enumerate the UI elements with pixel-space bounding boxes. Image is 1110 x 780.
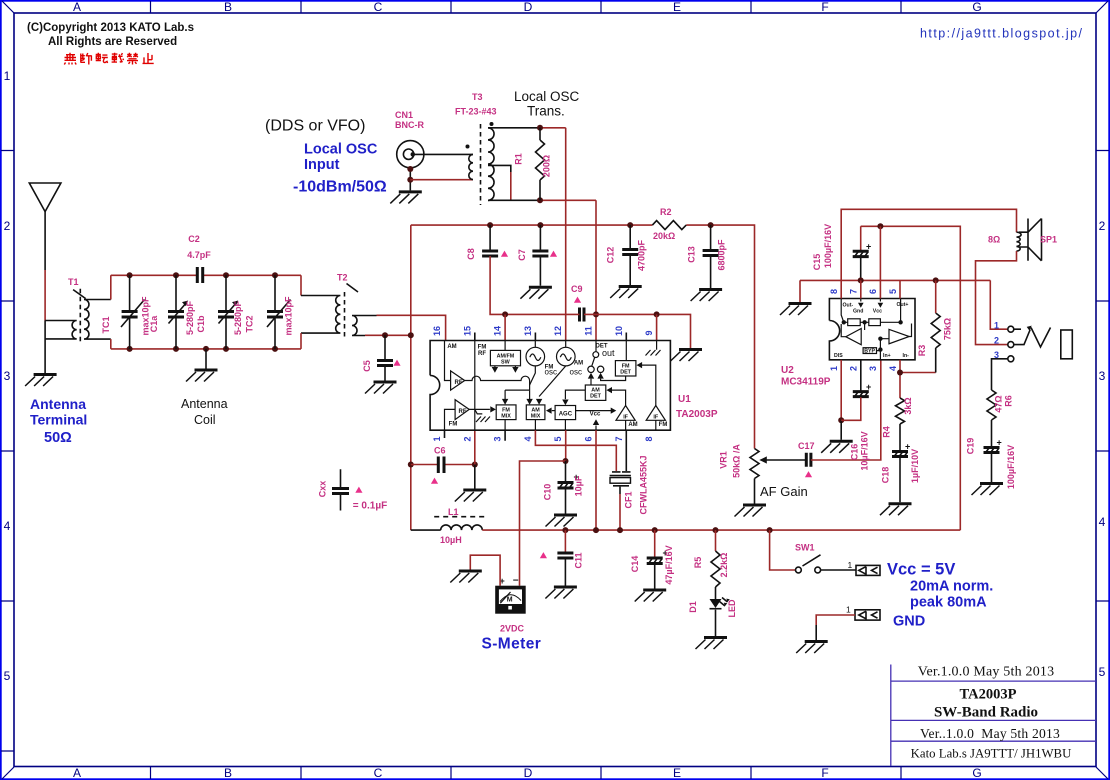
top rail wire — [411, 225, 755, 431]
svg-text:10µF: 10µF — [573, 475, 583, 496]
svg-text:B: B — [224, 766, 232, 780]
svg-text:L1: L1 — [448, 507, 459, 517]
wire pin5 node — [565, 430, 567, 461]
svg-text:5: 5 — [888, 289, 898, 294]
svg-text:Local OSC: Local OSC — [514, 89, 580, 104]
svg-text:Antenna: Antenna — [30, 396, 86, 412]
capacitor C10 — [565, 461, 567, 482]
svg-text:4: 4 — [1099, 515, 1106, 529]
svg-text:Out-: Out- — [843, 303, 854, 309]
pin numbers bottom 1-8 — [432, 436, 654, 441]
svg-text:osc: osc — [545, 368, 557, 377]
svg-text:DET: DET — [590, 394, 601, 400]
svg-text:50kΩ /A: 50kΩ /A — [732, 444, 742, 478]
svg-text:C7: C7 — [517, 249, 527, 261]
tuned circuit bottom rail — [111, 348, 301, 350]
svg-text:1: 1 — [829, 366, 839, 371]
svg-text:6800pF: 6800pF — [717, 239, 727, 271]
svg-text:TA2003P: TA2003P — [960, 687, 1017, 703]
ground C12 — [610, 287, 642, 299]
svg-text:Local OSC: Local OSC — [304, 142, 378, 158]
Vcc bus wire — [482, 529, 960, 531]
svg-text:7: 7 — [849, 289, 859, 294]
svg-text:Gnd: Gnd — [853, 309, 863, 315]
svg-text:D: D — [524, 766, 533, 780]
svg-text:7: 7 — [614, 436, 624, 441]
ground C5 — [365, 382, 397, 394]
svg-text:F: F — [821, 0, 828, 14]
wire pin1 down — [840, 360, 842, 421]
wire BNC to T3 primary top — [415, 153, 474, 155]
ground D1 — [696, 638, 728, 650]
svg-text:12: 12 — [553, 326, 563, 336]
svg-text:TC1: TC1 — [101, 316, 111, 333]
T3 center tap — [488, 165, 511, 172]
svg-text:15: 15 — [462, 326, 472, 336]
svg-text:SW: SW — [501, 360, 511, 366]
legend cap Cxx — [340, 469, 342, 510]
trimmer TC2 — [274, 275, 276, 349]
inductor L1 — [411, 529, 441, 531]
svg-text:CF1: CF1 — [624, 491, 634, 508]
svg-text:2: 2 — [994, 336, 999, 346]
svg-text:Terminal: Terminal — [30, 412, 87, 428]
svg-text:Vcc = 5V: Vcc = 5V — [887, 561, 955, 579]
svg-text:20kΩ: 20kΩ — [653, 231, 675, 241]
ground C14 — [635, 590, 667, 602]
svg-text:G: G — [972, 0, 981, 14]
svg-text:2: 2 — [462, 436, 472, 441]
svg-text:RF: RF — [459, 409, 467, 415]
svg-text:U1: U1 — [678, 394, 691, 405]
svg-text:B: B — [224, 0, 232, 14]
svg-text:47µF/16V: 47µF/16V — [664, 545, 674, 584]
svg-text:G: G — [972, 766, 981, 780]
svg-text:peak 80mA: peak 80mA — [910, 595, 987, 611]
svg-text:Ver.1.0.0 May 5th 2013: Ver.1.0.0 May 5th 2013 — [918, 665, 1055, 680]
svg-text:FM: FM — [478, 345, 487, 351]
svg-text:= 0.1µF: = 0.1µF — [353, 501, 387, 512]
wire Vcc U2 — [861, 226, 961, 530]
resistor R5 — [715, 530, 717, 551]
wire pin6 to bus — [595, 430, 597, 530]
wire T1 to rails — [110, 275, 112, 349]
svg-text:In-: In- — [903, 353, 910, 359]
resistor R4 — [896, 398, 905, 451]
svg-text:CN1: CN1 — [395, 110, 413, 120]
svg-text:3kΩ: 3kΩ — [903, 397, 913, 414]
svg-text:C: C — [374, 766, 383, 780]
red kanji notice (drawn strokes) — [64, 53, 153, 65]
wire pin5 up — [899, 280, 901, 298]
resistor R3 — [931, 313, 940, 373]
svg-text:VR1: VR1 — [719, 451, 729, 469]
svg-text:4700pF: 4700pF — [637, 239, 647, 271]
svg-text:AM: AM — [574, 361, 583, 367]
capacitor C19 — [984, 448, 1000, 453]
svg-text:C14: C14 — [630, 556, 640, 573]
svg-text:100µF/16V: 100µF/16V — [1006, 445, 1016, 489]
svg-text:C18: C18 — [881, 467, 891, 484]
wire LO to pin12 — [565, 128, 567, 341]
ground C13 — [691, 290, 723, 302]
svg-text:2VDC: 2VDC — [500, 624, 525, 634]
svg-text:In+: In+ — [883, 353, 891, 359]
svg-text:MIX: MIX — [531, 414, 541, 420]
svg-text:2: 2 — [849, 366, 859, 371]
svg-text:C5: C5 — [362, 360, 372, 372]
svg-text:R1: R1 — [514, 153, 524, 165]
wire speaker bottom to jack 2 — [976, 251, 1017, 345]
svg-text:1µF/10V: 1µF/10V — [910, 449, 920, 483]
wire T3 secondary top to R1 — [488, 127, 540, 129]
capacitor C11 — [564, 530, 566, 553]
svg-text:C15: C15 — [812, 254, 822, 271]
svg-text:47Ω: 47Ω — [994, 395, 1004, 412]
svg-text:Vcc: Vcc — [873, 309, 882, 315]
wire pin7 up — [860, 280, 862, 298]
capacitor C16 — [860, 360, 862, 391]
svg-text:AM: AM — [447, 344, 456, 350]
svg-text:C10: C10 — [543, 484, 553, 501]
svg-text:+: + — [866, 242, 871, 252]
svg-text:5-280pF: 5-280pF — [233, 300, 243, 335]
svg-text:4.7pF: 4.7pF — [187, 250, 211, 260]
capacitor C14 — [654, 530, 656, 557]
wire T3 bottom to pin11 — [595, 200, 597, 340]
svg-text:1: 1 — [848, 560, 853, 570]
wire to jack 1 — [990, 280, 1007, 329]
svg-text:A: A — [73, 766, 81, 780]
svg-text:max10pF: max10pF — [283, 296, 293, 336]
svg-text:6: 6 — [868, 289, 878, 294]
svg-text:BNC-R: BNC-R — [395, 120, 424, 130]
svg-text:GND: GND — [893, 614, 925, 630]
ground mid coil — [205, 349, 207, 369]
svg-text:FM: FM — [449, 422, 458, 428]
capacitor C15 — [860, 226, 862, 250]
svg-text:R6: R6 — [1003, 395, 1013, 407]
IC U2 MC34119P box — [829, 299, 915, 360]
svg-text:3: 3 — [868, 366, 878, 371]
svg-text:3: 3 — [1099, 369, 1106, 383]
svg-text:2.2kΩ: 2.2kΩ — [719, 553, 729, 578]
wire jack 3 to R6 — [992, 359, 1008, 390]
row numbers right — [1099, 219, 1106, 679]
svg-text:C: C — [374, 0, 383, 14]
svg-text:T2: T2 — [337, 273, 348, 283]
wire C6 line — [411, 464, 475, 466]
svg-text:CFWLA455KJ: CFWLA455KJ — [639, 455, 649, 514]
wire pin6 up — [879, 226, 881, 298]
wire T2 sec bottom — [365, 334, 411, 336]
wire C17 to U2 pin3 — [811, 360, 881, 460]
svg-text:Ver..1.0.0 May 5th 2013: Ver..1.0.0 May 5th 2013 — [920, 726, 1060, 741]
wire pin4 node — [900, 360, 936, 398]
wire pin4 to CF1 — [535, 430, 616, 471]
svg-text:-10dBm/50Ω: -10dBm/50Ω — [293, 179, 387, 196]
svg-text:13: 13 — [523, 326, 533, 336]
svg-text:A: A — [73, 0, 81, 14]
capacitor C13 — [710, 225, 712, 250]
resistor R1 — [536, 128, 545, 201]
ground BNC — [390, 192, 422, 204]
svg-text:D: D — [524, 0, 533, 14]
svg-text:Out+: Out+ — [897, 302, 909, 308]
svg-text:DET: DET — [620, 370, 631, 376]
svg-text:6: 6 — [584, 436, 594, 441]
svg-text:U2: U2 — [781, 365, 794, 376]
svg-text:R5: R5 — [693, 557, 703, 569]
svg-text:C6: C6 — [434, 446, 446, 456]
svg-text:5: 5 — [553, 436, 563, 441]
svg-text:3: 3 — [4, 369, 11, 383]
svg-text:(C)Copyright 2013 KATO Lab.s: (C)Copyright 2013 KATO Lab.s — [27, 22, 194, 34]
wire BNC to T3 primary bottom — [410, 179, 473, 181]
svg-text:9: 9 — [644, 330, 654, 335]
capacitor C8 — [489, 225, 491, 251]
svg-text:C2: C2 — [188, 234, 200, 244]
capacitor C18 — [892, 452, 908, 457]
wire pin14 up — [504, 314, 506, 340]
svg-text:R4: R4 — [882, 426, 892, 438]
svg-text:2: 2 — [4, 219, 11, 233]
ground pin9 line — [671, 350, 703, 362]
tuned circuit top rail — [111, 274, 301, 276]
svg-text:AGC: AGC — [559, 412, 573, 418]
svg-text:Kato Lab.s JA9TTT/ JH1WBU: Kato Lab.s JA9TTT/ JH1WBU — [911, 747, 1072, 761]
svg-text:E: E — [673, 0, 681, 14]
svg-text:3: 3 — [493, 436, 503, 441]
IC U1 TA2003P box — [430, 341, 670, 431]
svg-text:out: out — [602, 348, 615, 358]
svg-text:SP1: SP1 — [1040, 235, 1057, 245]
svg-text:C16: C16 — [850, 444, 860, 461]
svg-text:C12: C12 — [606, 247, 616, 264]
ground C10 — [546, 515, 578, 527]
wire left vertical — [410, 225, 412, 530]
svg-text:16: 16 — [432, 326, 442, 336]
ground line U2 — [800, 280, 990, 302]
wire pin8 to speaker — [841, 209, 1016, 298]
svg-text:Coil: Coil — [194, 413, 216, 427]
svg-text:C8: C8 — [466, 248, 476, 260]
svg-text:Input: Input — [304, 157, 340, 173]
trimmer TC1 — [129, 275, 131, 349]
svg-text:SW-Band Radio: SW-Band Radio — [934, 705, 1038, 721]
svg-text:AF Gain: AF Gain — [760, 484, 808, 499]
svg-text:11: 11 — [584, 326, 594, 336]
variable cap C1b — [225, 275, 227, 349]
svg-text:4: 4 — [523, 436, 533, 441]
wire antenna to T1 — [44, 270, 46, 321]
svg-text:M: M — [507, 597, 513, 604]
detector line wire — [505, 314, 690, 348]
wire T3 secondary bottom — [488, 199, 540, 201]
svg-text:(DDS or VFO): (DDS or VFO) — [265, 118, 365, 135]
svg-text:T1: T1 — [68, 277, 79, 287]
capacitor C12 — [629, 225, 631, 249]
svg-text:T3: T3 — [472, 92, 483, 102]
svg-text:BYP: BYP — [864, 349, 875, 355]
svg-text:+: + — [997, 438, 1002, 448]
svg-text:R2: R2 — [660, 207, 672, 217]
svg-text:http://ja9ttt.blogspot.jp/: http://ja9ttt.blogspot.jp/ — [920, 27, 1083, 41]
svg-text:1: 1 — [846, 605, 851, 615]
ground pin1 — [821, 441, 853, 453]
svg-text:4: 4 — [888, 366, 898, 371]
svg-text:C9: C9 — [571, 284, 583, 294]
variable cap C1a — [175, 275, 177, 349]
svg-text:LED: LED — [727, 599, 737, 618]
capacitor C7 — [539, 225, 541, 251]
wire pin2 down to ground — [474, 430, 476, 464]
svg-text:DIS: DIS — [834, 353, 843, 359]
resistor R6 — [987, 390, 996, 447]
pin numbers top 16-9 — [432, 326, 654, 336]
ground pin2 — [455, 490, 487, 502]
wire T2 sec top to pin16 — [377, 315, 446, 340]
svg-text:200Ω: 200Ω — [542, 155, 552, 177]
svg-text:20mA norm.: 20mA norm. — [910, 579, 993, 595]
svg-text:1: 1 — [4, 69, 11, 83]
column letters bottom — [73, 766, 982, 780]
svg-text:All Rights are Reserved: All Rights are Reserved — [48, 36, 177, 48]
svg-text:C1b: C1b — [196, 315, 206, 333]
capacitor C6 — [438, 457, 444, 474]
wire to S-meter — [520, 461, 566, 586]
ground C7 — [520, 287, 552, 299]
svg-text:SW1: SW1 — [795, 543, 815, 553]
speaker SP1 — [1017, 232, 1022, 251]
capacitor C5 — [384, 335, 386, 380]
ceramic filter CF1 — [625, 430, 627, 471]
svg-text:Cxx: Cxx — [317, 481, 327, 498]
ground VR1 — [735, 505, 767, 517]
svg-text:10µF/16V: 10µF/16V — [860, 431, 870, 470]
ground C19 — [972, 484, 1004, 496]
svg-text:1: 1 — [432, 436, 442, 441]
svg-text:5-280pF: 5-280pF — [185, 300, 195, 335]
svg-text:RF: RF — [455, 380, 463, 386]
svg-text:TA2003P: TA2003P — [676, 409, 718, 420]
node dots rails — [127, 272, 133, 278]
wire BNC shell down — [409, 168, 411, 191]
svg-text:Vcc: Vcc — [590, 412, 601, 418]
svg-text:TC2: TC2 — [244, 315, 254, 332]
svg-text:Trans.: Trans. — [527, 104, 565, 119]
svg-text:5: 5 — [4, 669, 11, 683]
svg-text:FM: FM — [659, 422, 668, 428]
svg-text:C13: C13 — [687, 246, 697, 263]
svg-text:osc: osc — [570, 368, 582, 377]
potentiometer VR1 — [754, 431, 756, 449]
transformer T3 — [480, 124, 482, 205]
svg-text:C11: C11 — [573, 552, 583, 568]
svg-text:−: − — [513, 576, 519, 587]
svg-text:1: 1 — [994, 320, 999, 330]
svg-text:75kΩ: 75kΩ — [943, 318, 953, 340]
ground C11 — [545, 587, 577, 599]
wire pin9 up — [656, 314, 658, 340]
svg-text:100µF/16V: 100µF/16V — [823, 224, 833, 268]
svg-text:C17: C17 — [798, 441, 815, 451]
svg-text:D1: D1 — [688, 601, 698, 613]
svg-text:RF: RF — [478, 351, 486, 357]
svg-text:S-Meter: S-Meter — [482, 636, 542, 653]
column letters top — [73, 0, 982, 14]
pin stubs U1 — [445, 333, 627, 441]
svg-text:MC34119P: MC34119P — [781, 377, 831, 388]
ground C18 — [880, 504, 912, 516]
svg-text:MIX: MIX — [501, 414, 511, 420]
LED D1 — [715, 587, 717, 599]
svg-text:10µH: 10µH — [440, 535, 462, 545]
svg-text:+: + — [866, 382, 871, 392]
resistor R2 — [652, 221, 686, 230]
BNC connector CN1 — [397, 141, 424, 168]
headphone jack — [1008, 326, 1014, 332]
U2 pin numbers top — [829, 289, 898, 294]
svg-text:Antenna: Antenna — [181, 397, 228, 411]
svg-text:IF: IF — [653, 415, 658, 421]
svg-text:FT-23-#43: FT-23-#43 — [455, 107, 497, 117]
svg-text:C1a: C1a — [149, 315, 159, 333]
svg-text:8Ω: 8Ω — [988, 235, 1000, 245]
U2 internals — [841, 299, 911, 360]
U1 internals — [445, 341, 666, 431]
svg-text:C19: C19 — [966, 438, 976, 455]
ground antenna — [25, 375, 57, 387]
svg-text:8: 8 — [829, 289, 839, 294]
svg-text:AM: AM — [628, 422, 637, 428]
svg-text:2: 2 — [1099, 219, 1106, 233]
svg-text:5: 5 — [1099, 665, 1106, 679]
svg-text:IF: IF — [623, 415, 628, 421]
svg-text:10: 10 — [614, 326, 624, 336]
svg-text:F: F — [821, 766, 828, 780]
antenna — [29, 183, 61, 212]
svg-text:50Ω: 50Ω — [44, 430, 72, 446]
svg-text:E: E — [673, 766, 681, 780]
svg-text:4: 4 — [4, 519, 11, 533]
U2 pin numbers bottom — [829, 366, 898, 371]
svg-text:R3: R3 — [917, 345, 927, 357]
row numbers left — [4, 69, 11, 683]
svg-text:14: 14 — [493, 326, 503, 336]
title block — [891, 665, 1096, 767]
svg-text:8: 8 — [644, 436, 654, 441]
